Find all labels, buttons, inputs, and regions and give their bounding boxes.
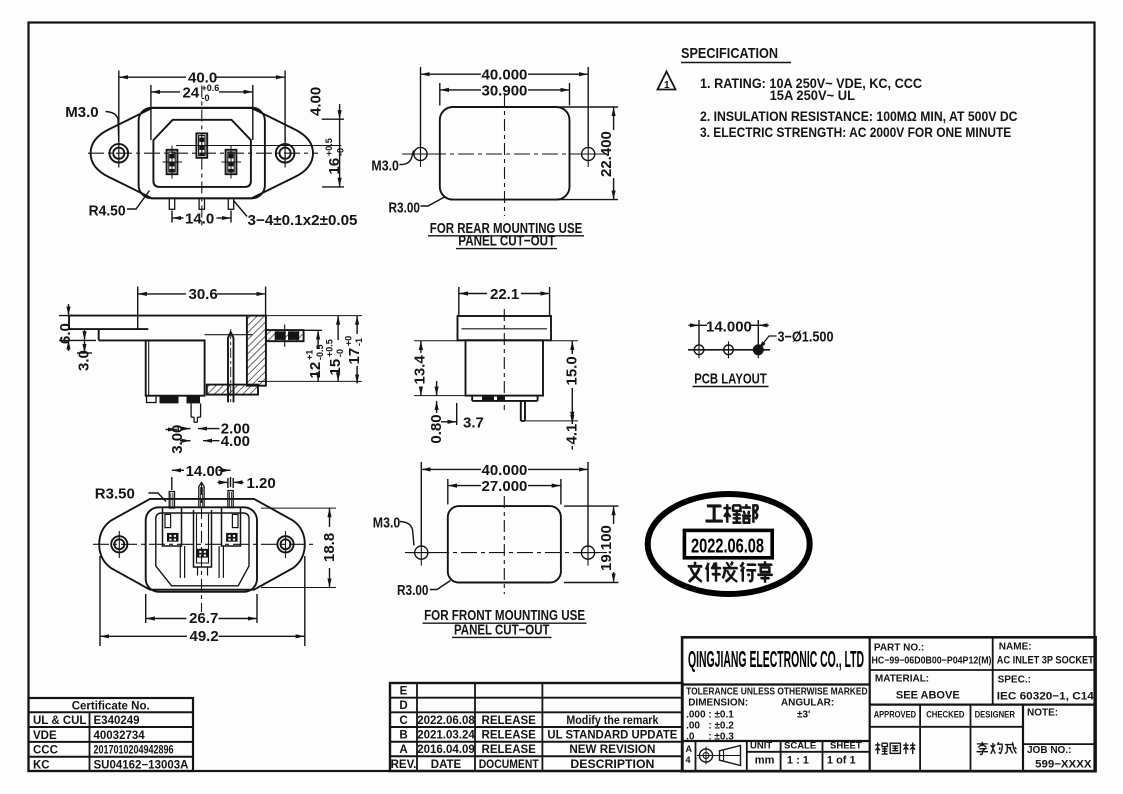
front-mount cutout: rounded rectangle [448, 506, 561, 582]
svg-text:14.000: 14.000 [706, 318, 752, 335]
leader R3.50 [149, 493, 167, 502]
side section: body box [146, 335, 253, 396]
svg-text:15: 15 [327, 359, 344, 376]
svg-text:KC: KC [33, 759, 50, 771]
svg-text:22.400: 22.400 [598, 131, 615, 177]
dimensions 2.00 / 4.00 / 3.00 bottom [166, 427, 220, 441]
rear view: center prong [199, 483, 204, 509]
svg-text:IEC 60320−1, C14: IEC 60320−1, C14 [997, 691, 1095, 703]
svg-text:E: E [400, 686, 408, 698]
rear view texts [95, 463, 338, 645]
side section: terminal tabs [147, 396, 201, 404]
svg-text:M3.0: M3.0 [373, 515, 401, 532]
svg-text:QINGJIANG ELECTRONIC CO., LTD: QINGJIANG ELECTRONIC CO., LTD [688, 646, 864, 672]
front view dimension texts [65, 70, 357, 230]
dimension 40.0 [119, 71, 285, 143]
dimension 22.400 [560, 107, 619, 200]
side section: solder pin [191, 403, 201, 422]
svg-text:NEW REVISION: NEW REVISION [569, 744, 655, 756]
dimension 15.0 [525, 341, 578, 421]
rear view: left prong [169, 492, 174, 509]
svg-text:D: D [399, 700, 407, 712]
rear view: horizontal centerline [93, 543, 315, 545]
rear view: right contact assembly [219, 508, 240, 578]
svg-text:SCALE: SCALE [784, 741, 816, 752]
front cutout texts [373, 462, 615, 639]
top section view: bottom step [472, 396, 537, 401]
rear view: body rounded rectangle [146, 507, 257, 592]
svg-text:DIMENSION:: DIMENSION: [688, 698, 748, 709]
side section: hatched floor [207, 385, 258, 395]
svg-text:±3': ±3' [797, 710, 810, 721]
svg-text:ANGULAR:: ANGULAR: [781, 698, 834, 709]
rear view: right mounting hole [277, 531, 293, 558]
dimension 14.00 rear [172, 470, 231, 490]
dimension 30.6 [138, 287, 266, 331]
svg-text:mm: mm [755, 755, 775, 767]
svg-text:NAME:: NAME: [999, 642, 1032, 653]
svg-text:DOCUMENT: DOCUMENT [479, 759, 539, 771]
svg-text:-0.5: -0.5 [315, 344, 325, 360]
leader M3.0 rear cutout [400, 151, 414, 165]
svg-text:A: A [686, 744, 693, 754]
dimension 40.000 front cutout [421, 462, 588, 545]
svg-text:MATERIAL:: MATERIAL: [875, 674, 929, 685]
svg-text:3−4±0.1x2±0.05: 3−4±0.1x2±0.05 [248, 212, 358, 229]
svg-text:C: C [399, 715, 407, 727]
rear view: recess opening [156, 513, 249, 586]
svg-text:27.000: 27.000 [482, 478, 528, 495]
svg-text:24: 24 [183, 85, 200, 102]
svg-text:4.00: 4.00 [308, 87, 325, 116]
front view: body rounded rectangle [139, 108, 265, 199]
svg-text:49.2: 49.2 [190, 628, 219, 645]
svg-text:CHECKED: CHECKED [926, 710, 964, 721]
rear-mount cutout: left hole M3 [408, 141, 434, 167]
svg-text:UL STANDARD UPDATE: UL STANDARD UPDATE [547, 730, 677, 742]
svg-text:+0.5: +0.5 [324, 138, 334, 156]
dimension 18.8 [261, 508, 336, 587]
svg-text:Modify the remark: Modify the remark [566, 715, 659, 727]
leader M3.0 front cutout [400, 522, 414, 546]
front view: vertical centerline [201, 86, 203, 227]
top section view texts [412, 286, 581, 445]
certificate table [29, 698, 194, 771]
svg-text:M3.0: M3.0 [371, 157, 399, 174]
dimension 40.000 rear cutout [421, 67, 589, 146]
rear-mount cutout: vertical centerline [504, 95, 506, 216]
designer name seal [977, 742, 1017, 755]
svg-text:14.0: 14.0 [185, 211, 214, 228]
dimension 30.900 [440, 83, 570, 106]
svg-text:18.8: 18.8 [321, 533, 338, 562]
svg-text:3. ELECTRIC STRENGTH: AC 2000V: 3. ELECTRIC STRENGTH: AC 2000V FOR ONE M… [700, 124, 1011, 140]
svg-text:HC−99−06D0B00−P04P12(M): HC−99−06D0B00−P04P12(M) [872, 656, 992, 667]
svg-text:4: 4 [686, 755, 691, 765]
dimension 13.4 [414, 341, 470, 396]
svg-text:-1: -1 [354, 338, 364, 346]
rear-mount cutout: horizontal centerline [402, 153, 607, 155]
svg-text:NOTE:: NOTE: [1027, 708, 1058, 719]
top section view: main body [466, 340, 544, 395]
svg-text:R3.50: R3.50 [95, 486, 135, 503]
rear view: center contact assembly [194, 510, 212, 576]
A4 and projection symbol [686, 741, 862, 767]
svg-text:12: 12 [307, 362, 324, 379]
svg-text:SHEET: SHEET [830, 741, 862, 752]
dimension 14.000 pcb [689, 320, 769, 344]
dimension 0.80 [436, 381, 438, 413]
svg-text:14.00: 14.00 [186, 463, 224, 480]
leader 3-diameter 1.500 [758, 336, 776, 350]
dimension 49.2 [100, 556, 305, 646]
svg-text:-0: -0 [336, 148, 346, 156]
leader R3.00 front cutout [430, 581, 451, 590]
svg-text:R3.00: R3.00 [397, 582, 429, 599]
svg-text:0.80: 0.80 [428, 414, 445, 443]
rear-mount cutout: rounded rectangle [440, 107, 570, 200]
svg-text:+1: +1 [305, 350, 315, 360]
svg-text:APPROVED: APPROVED [874, 710, 917, 721]
svg-text:2021.03.24: 2021.03.24 [417, 730, 475, 742]
svg-text:3.7: 3.7 [463, 415, 484, 432]
rear view: flange outline [99, 499, 305, 590]
svg-text:SPECIFICATION: SPECIFICATION [681, 45, 778, 62]
front view: line pin L [163, 146, 183, 179]
dimension 26.7 [146, 594, 257, 623]
svg-text:13.4: 13.4 [412, 355, 429, 385]
dimension 4.00 / 16+0.5 right side [322, 104, 344, 187]
svg-text:1.20: 1.20 [247, 475, 276, 492]
svg-text:2. INSULATION RESISTANCE: 100M: 2. INSULATION RESISTANCE: 100MΩ MIN, AT … [700, 108, 1018, 124]
svg-text:1 of 1: 1 of 1 [827, 755, 856, 767]
svg-text:CCC: CCC [33, 745, 58, 757]
PCB layout: hole 1 [694, 341, 704, 358]
svg-text:15.0: 15.0 [564, 356, 581, 385]
svg-text:E340249: E340249 [94, 715, 140, 727]
dimension 22.1 [459, 287, 550, 315]
top section view: vertical centerline [503, 309, 505, 410]
title block [682, 637, 1096, 771]
approved name seal [875, 743, 915, 755]
svg-text:M3.0: M3.0 [65, 104, 98, 121]
rear view: left mounting hole [111, 531, 127, 558]
top section view: side pin [521, 401, 525, 421]
svg-text:+0: +0 [344, 336, 354, 346]
side section: hatched rear wall [247, 316, 266, 386]
svg-text:22.1: 22.1 [490, 286, 519, 303]
svg-text:UL & CUL: UL & CUL [33, 715, 86, 727]
svg-text:PCB LAYOUT: PCB LAYOUT [694, 371, 767, 388]
svg-text:REV.: REV. [391, 759, 417, 771]
front-mount cutout: right hole M3 [575, 540, 601, 566]
revision flag triangle 1 [658, 72, 676, 92]
leader M3.0 front [106, 112, 119, 142]
front-mount cutout: horizontal centerline [405, 552, 607, 554]
dimension 1.20 [218, 478, 244, 488]
svg-text:DESIGNER: DESIGNER [975, 710, 1015, 721]
svg-text:RELEASE: RELEASE [482, 715, 537, 727]
front view: right mounting hole M3 [276, 139, 295, 168]
svg-text:26.7: 26.7 [189, 610, 218, 627]
svg-text:RELEASE: RELEASE [482, 744, 537, 756]
approval stamp: oval [648, 494, 810, 594]
svg-text:2016.04.09: 2016.04.09 [417, 744, 475, 756]
svg-text:.00 : ±0.2: .00 : ±0.2 [686, 721, 734, 732]
front-mount cutout: vertical centerline [503, 496, 505, 594]
title block grid lines [682, 637, 1096, 771]
rear view: vertical centerline [201, 483, 203, 612]
svg-text:DESCRIPTION: DESCRIPTION [570, 759, 654, 771]
revision table [390, 683, 683, 771]
svg-text:-0: -0 [202, 93, 210, 103]
side section: flange plate [69, 316, 247, 341]
front view: earth pin E [196, 133, 207, 157]
dimensions 12 / 15 / 17 right side [247, 316, 362, 384]
side section: earth pin [228, 329, 234, 405]
svg-text:AC INLET 3P SOCKET: AC INLET 3P SOCKET [997, 655, 1094, 667]
svg-text:DATE: DATE [431, 759, 462, 771]
PCB layout: baseline [688, 349, 770, 351]
svg-text:UNIT: UNIT [750, 741, 772, 752]
svg-text:4.00: 4.00 [221, 433, 250, 450]
svg-text:SU04162−13003A: SU04162−13003A [94, 759, 189, 771]
leader 3-4 pin note [234, 201, 248, 217]
svg-text:40.000: 40.000 [482, 462, 528, 479]
svg-text:4.1: 4.1 [563, 424, 580, 445]
top section view: cap flange [458, 316, 552, 340]
svg-text:SPEC.:: SPEC.: [998, 675, 1031, 686]
svg-text:3−Ø1.500: 3−Ø1.500 [778, 328, 834, 345]
part number / name cells text [872, 642, 1095, 771]
svg-text:PANEL CUT−OUT: PANEL CUT−OUT [458, 233, 555, 250]
svg-text:PANEL CUT−OUT: PANEL CUT−OUT [454, 621, 550, 638]
svg-text:+0.6: +0.6 [202, 83, 220, 93]
projection symbol [697, 746, 741, 766]
svg-text:6.0: 6.0 [57, 323, 74, 344]
svg-text:599−XXXX: 599−XXXX [1035, 759, 1092, 771]
rear view: left contact assembly [163, 508, 185, 578]
tolerance block text [686, 687, 868, 743]
svg-text:RELEASE: RELEASE [482, 730, 537, 742]
svg-text:R4.50: R4.50 [89, 203, 126, 220]
svg-text:2017010204942896: 2017010204942896 [94, 745, 174, 757]
front view: flange outline [91, 108, 313, 198]
rear view: right prong [228, 491, 233, 508]
svg-text:3.00: 3.00 [169, 425, 186, 454]
dimension 14.0 [172, 211, 231, 223]
dimension 4.1 [571, 421, 573, 450]
leader R4.50 [127, 191, 150, 210]
svg-text:30.900: 30.900 [482, 82, 528, 99]
dimension 27.000 [448, 479, 561, 505]
side view texts [57, 286, 364, 454]
svg-text:A: A [399, 744, 407, 756]
rear cutout texts [371, 67, 615, 250]
dimension 24 +0.6/-0 [151, 85, 253, 140]
front view: horizontal centerline [88, 152, 318, 154]
front view: thin reference line [176, 145, 341, 147]
svg-text:40.000: 40.000 [482, 67, 528, 84]
svg-text:1 : 1: 1 : 1 [787, 755, 809, 767]
PCB layout: hole 3 [754, 341, 764, 358]
svg-text:B: B [399, 730, 407, 742]
PCB layout: hole 2 [724, 341, 734, 358]
svg-text:-0: -0 [335, 349, 345, 357]
leader R3.00 rear cutout [421, 197, 445, 206]
svg-text:PART NO.:: PART NO.: [874, 643, 924, 654]
svg-text:17: 17 [346, 348, 363, 365]
svg-text:SEE ABOVE: SEE ABOVE [896, 690, 960, 702]
svg-text:30.6: 30.6 [189, 286, 218, 303]
svg-text:.0 : ±0.3: .0 : ±0.3 [686, 732, 734, 743]
svg-text:Certificate No.: Certificate No. [72, 700, 150, 712]
svg-text:+0.5: +0.5 [325, 339, 335, 357]
svg-text:40032734: 40032734 [94, 730, 146, 742]
dimension 6.0 [59, 304, 96, 351]
svg-text:2022.06.08: 2022.06.08 [691, 536, 764, 558]
front view: C14 opening [153, 120, 251, 187]
svg-text:1: 1 [664, 80, 670, 91]
stamp text line 1 (dept) [705, 506, 722, 521]
svg-text:TOLERANCE UNLESS OTHERWISE MAR: TOLERANCE UNLESS OTHERWISE MARKED [686, 687, 868, 698]
stamp text line 2 (issue seal) [688, 562, 702, 582]
front view: neutral pin N [222, 146, 242, 179]
dimension 3.0 [77, 330, 92, 353]
front view: left mounting hole M3 [110, 139, 129, 168]
svg-text:2022.06.08: 2022.06.08 [417, 715, 475, 727]
svg-text:3.0: 3.0 [76, 350, 93, 371]
dimension 19.100 [564, 506, 619, 582]
svg-text:VDE: VDE [33, 730, 57, 742]
front view: solder tails [169, 198, 233, 209]
svg-text:.000 : ±0.1: .000 : ±0.1 [686, 710, 734, 721]
specification block [681, 45, 1018, 140]
svg-text:R3.00: R3.00 [389, 199, 421, 216]
front-mount cutout: left hole M3 [408, 540, 434, 566]
svg-text:JOB NO.:: JOB NO.: [1027, 745, 1071, 756]
side section: hatched contact arm [266, 325, 304, 347]
title block outer border [682, 637, 1096, 771]
dimension 3.7 [441, 403, 457, 425]
svg-text:19.100: 19.100 [598, 525, 615, 571]
svg-text:15A 250V~ UL: 15A 250V~ UL [770, 87, 856, 103]
rear-mount cutout: right hole M3 [575, 141, 601, 167]
svg-text:16: 16 [326, 158, 343, 175]
stamp date box [684, 530, 772, 557]
